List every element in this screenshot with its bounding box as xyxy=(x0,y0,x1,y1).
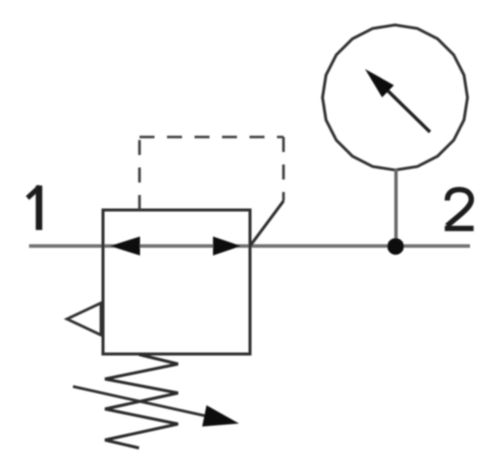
junction dot at node 2 branch xyxy=(387,238,404,255)
spring (adjustable, below box) xyxy=(105,355,178,449)
node 2 (port label) xyxy=(445,190,474,229)
pilot line: dashed top horizontal xyxy=(140,136,284,139)
adjustment arrow shaft through spring xyxy=(73,387,206,417)
adjustment arrow head xyxy=(202,405,239,426)
gauge needle arrow head xyxy=(365,69,394,97)
node 1 (port label) xyxy=(28,186,41,231)
pilot line: dashed right vertical xyxy=(282,137,285,201)
relief vent triangle xyxy=(67,303,101,335)
wire: gauge drop line to main line xyxy=(394,169,397,246)
flow arrow left (inside box) xyxy=(110,237,140,256)
regulator body (valve box) xyxy=(103,210,250,354)
gauge needle shaft xyxy=(386,89,430,132)
pilot line: diagonal to output junction xyxy=(250,201,284,246)
flow arrow right (inside box) xyxy=(213,237,241,256)
pressure gauge body (circle) xyxy=(323,25,468,170)
wire: main flow line from port 1 to port 2 xyxy=(29,244,470,247)
pilot line: dashed left vertical xyxy=(138,137,141,210)
